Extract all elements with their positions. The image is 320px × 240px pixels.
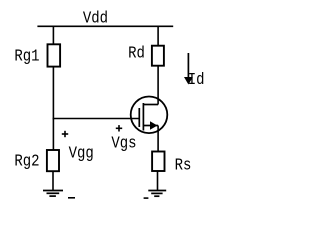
label minus left ground [68,197,75,199]
wire Rg2 to ground [52,171,54,190]
wire Vdd top rail [37,25,173,27]
svg-text:Rs: Rs [175,155,192,174]
svg-text:Rg1: Rg1 [14,47,39,66]
transistor Q1 gate bar [138,108,140,127]
label minus right ground [144,197,149,199]
resistor Rs [152,152,164,172]
label plus Vgg polarity [62,131,68,137]
wire Rs to ground [157,171,159,191]
svg-text:Rd: Rd [128,43,145,62]
wire gate junction to Rg2 [52,119,54,151]
current arrow Id [184,53,193,85]
ground left [43,191,63,197]
wire transistor source to Rs [157,126,159,153]
transistor Q1 MOSFET body circle [131,97,168,134]
svg-text:Vgs: Vgs [111,133,136,152]
transistor Q1 source lead [143,125,158,127]
resistor Rd [152,46,164,66]
ground right [148,191,166,197]
resistor Rg1 [48,44,61,66]
svg-text:Vgg: Vgg [69,143,94,162]
wire Rg1 to gate junction [52,67,54,120]
transistor Q1 drain lead [143,104,158,106]
wire Vdd rail to Rd [157,26,159,46]
transistor Q1 source arrow [150,121,157,130]
wire Rd to transistor drain [157,66,159,105]
svg-text:Vdd: Vdd [83,8,108,27]
resistor Rg2 [47,150,59,171]
svg-text:Rg2: Rg2 [14,151,39,170]
label plus Vgs polarity [116,125,122,131]
svg-text:Id: Id [188,70,205,89]
transistor Q1 channel bar [142,103,144,131]
wire Vdd rail to Rg1 [52,26,54,45]
wire gate horizontal [53,118,140,120]
